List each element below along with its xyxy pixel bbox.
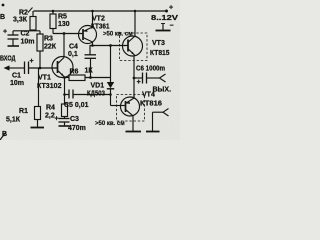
transistor VT2 <box>79 26 97 44</box>
label R1 <box>6 108 28 124</box>
wire VD1 to VT4 base <box>111 105 126 107</box>
wire input to C1 <box>8 67 24 69</box>
ground (R1) <box>31 127 45 129</box>
svg-text:ВЫХ.: ВЫХ. <box>153 87 172 94</box>
capacitor C3 <box>55 116 70 126</box>
fragment bottom-left <box>0 131 7 140</box>
label VT4 <box>140 92 162 108</box>
output connector <box>160 74 166 82</box>
wire VT2 collector down <box>92 42 94 46</box>
svg-text:C1: C1 <box>12 73 21 80</box>
svg-text:+: + <box>55 116 59 123</box>
wire R5 bottom to VT2 base <box>53 33 83 35</box>
input connector arrow <box>4 65 10 70</box>
wire R6 to VD1 anode <box>85 77 111 79</box>
wire VT2 emitter to rail <box>92 11 94 27</box>
svg-text:КД503: КД503 <box>87 91 105 98</box>
wire VD1 line upper <box>110 46 112 83</box>
svg-text:130: 130 <box>58 21 70 28</box>
transistor VT1 <box>52 57 73 78</box>
wire C1 to VT1 base <box>29 67 58 69</box>
resistor R5 <box>50 10 56 34</box>
resistor R1 <box>35 68 41 127</box>
svg-text:VD1: VD1 <box>91 83 105 90</box>
svg-text:ВХОД: ВХОД <box>0 56 16 63</box>
node VT3 collector / rail junction <box>134 10 137 13</box>
svg-text:КТ815: КТ815 <box>150 50 170 57</box>
node VD1 top <box>109 44 112 47</box>
svg-text:R6: R6 <box>70 69 79 76</box>
resistor R6 <box>69 75 85 81</box>
label R2 <box>13 10 28 24</box>
label R4 <box>45 105 55 120</box>
label C3 <box>68 116 86 132</box>
battery minus terminal <box>161 24 165 31</box>
svg-text:+: + <box>137 79 141 86</box>
wire VT1 emitter down <box>64 77 66 104</box>
svg-text:>50 кв. см: >50 кв. см <box>103 32 133 38</box>
node C4 bottom <box>89 76 92 79</box>
label VT1 <box>37 75 62 91</box>
svg-text:470m: 470m <box>68 125 86 132</box>
ground (VT4) <box>126 131 142 133</box>
transistor VT4 <box>121 97 140 116</box>
node C4 / VT2 collector <box>91 44 94 47</box>
svg-text:5,1К: 5,1К <box>6 117 21 124</box>
svg-text:C6 1000m: C6 1000m <box>136 66 165 73</box>
svg-text:VT1: VT1 <box>38 75 51 82</box>
output return terminal <box>153 109 169 132</box>
wire C2/R2/R3 junction <box>13 30 40 32</box>
wire VT2 collector to VT3 base <box>90 45 129 47</box>
diode VD1 <box>107 82 114 89</box>
svg-text:+: + <box>3 29 7 36</box>
svg-text:22К: 22К <box>44 44 57 51</box>
svg-text:КТ816: КТ816 <box>140 101 162 108</box>
svg-text:R3: R3 <box>44 36 53 43</box>
svg-text:C2: C2 <box>21 31 30 38</box>
svg-text:+: + <box>169 5 173 12</box>
label R6 <box>70 68 94 76</box>
label VT2 <box>91 16 110 31</box>
capacitor C4 <box>85 46 97 78</box>
svg-text:R1: R1 <box>19 108 28 115</box>
capacitor C5 <box>65 90 111 99</box>
wire VT1 collector up <box>63 34 65 58</box>
node VT1 collector / R5 / VT2 base <box>63 32 66 35</box>
node VT1 base / R1 / R3 <box>39 67 42 70</box>
label C2 <box>21 31 35 46</box>
resistor R2 <box>30 11 36 31</box>
label C4 <box>68 44 78 59</box>
ground (output return) <box>146 131 160 133</box>
fragment rail left <box>28 8 33 13</box>
label R5 <box>58 14 70 29</box>
svg-text:>50 кв. см: >50 кв. см <box>95 121 125 127</box>
capacitor C2 <box>3 29 19 46</box>
transistor VT3 <box>123 36 143 56</box>
resistor R4 <box>62 104 68 119</box>
svg-text:R5: R5 <box>58 14 67 21</box>
node R6 / VT1 emitter <box>63 76 66 79</box>
paper background <box>0 0 180 140</box>
wire VT4 emitter up <box>133 95 135 98</box>
svg-text:0,1: 0,1 <box>68 51 78 58</box>
svg-text:R2: R2 <box>19 10 28 17</box>
wire VD1 line lower <box>110 89 112 106</box>
svg-text:КТ361: КТ361 <box>91 24 110 31</box>
label VD1 <box>87 83 105 98</box>
node VT2 emitter / rail junction <box>91 10 94 13</box>
wire C6 to output <box>147 77 160 79</box>
svg-text:C4: C4 <box>69 44 78 51</box>
svg-text:10m: 10m <box>21 39 35 46</box>
wire VT3 collector to rail <box>134 11 136 36</box>
svg-text:С5 0,01: С5 0,01 <box>64 102 89 109</box>
svg-text:В: В <box>0 14 5 21</box>
ground (battery minus) <box>156 30 171 32</box>
wire output node <box>133 56 135 98</box>
svg-text:1К: 1К <box>85 68 94 75</box>
node C5 / VD1 cathode line <box>109 93 112 96</box>
wire R6 feedback <box>65 77 70 79</box>
resistor R3 <box>37 31 43 68</box>
node C5 tap <box>63 93 66 96</box>
fragment top-left <box>0 4 5 21</box>
rail end dot <box>165 10 168 13</box>
svg-text:−: − <box>170 23 174 30</box>
svg-text:+: + <box>30 58 34 65</box>
svg-text:3,3К: 3,3К <box>13 17 28 24</box>
label power <box>151 5 178 30</box>
wire VT4 collector down <box>132 116 134 131</box>
node C6 tap <box>133 77 136 80</box>
ground (C3) <box>59 125 70 127</box>
top +V rail wire <box>34 10 168 12</box>
svg-text:2,2: 2,2 <box>45 113 55 120</box>
svg-text:VT3: VT3 <box>152 40 165 47</box>
label R3 <box>44 36 57 51</box>
capacitor C1 <box>25 58 34 74</box>
svg-text:VT4: VT4 <box>142 92 155 99</box>
svg-text:С3: С3 <box>70 116 79 123</box>
heatsink box VT4 <box>117 95 145 122</box>
label VT3 <box>150 40 170 57</box>
svg-text:8..12V: 8..12V <box>151 15 178 22</box>
ground (C2) <box>8 45 20 47</box>
svg-text:VT2: VT2 <box>92 16 105 23</box>
svg-text:R4: R4 <box>46 105 55 112</box>
svg-text:КТ3102: КТ3102 <box>37 83 62 90</box>
svg-text:10m: 10m <box>10 80 24 87</box>
label C1 <box>10 73 24 88</box>
capacitor C6 <box>134 73 147 87</box>
heatsink box VT3 <box>120 33 148 61</box>
